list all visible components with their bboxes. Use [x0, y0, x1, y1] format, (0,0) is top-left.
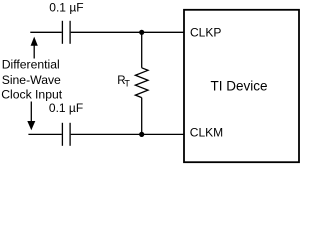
wire: resistor RT to bottom node	[141, 98, 143, 135]
svg-text:0.1 µF: 0.1 µF	[49, 1, 83, 15]
value label: 0.1 µF (C1)	[49, 1, 83, 15]
resistor RT (termination)	[135, 68, 148, 98]
svg-text:T: T	[124, 79, 130, 89]
TI Device box U1	[184, 10, 299, 162]
value label: 0.1 µF (C2)	[49, 101, 83, 115]
wire: input stub to C1 (top)	[30, 31, 62, 33]
junction dot: bottom node	[139, 132, 144, 137]
annotation arrow down (to bottom rail)	[27, 102, 35, 131]
junction dot: top node	[139, 30, 144, 35]
svg-text:0.1 µF: 0.1 µF	[49, 101, 83, 115]
wire: top node to resistor RT	[141, 32, 143, 68]
svg-text:CLKM: CLKM	[190, 126, 223, 140]
wire: C1 to CLKP pin (top net)	[71, 31, 184, 33]
pin label CLKP	[190, 26, 221, 40]
label RT	[117, 75, 130, 89]
wire: input stub to C2 (bottom)	[28, 133, 61, 135]
svg-text:CLKP: CLKP	[190, 26, 221, 40]
label: TI Device	[211, 79, 268, 94]
pin label CLKM	[190, 126, 223, 140]
svg-text:Clock Input: Clock Input	[1, 87, 63, 101]
svg-text:Sine-Wave: Sine-Wave	[2, 73, 61, 87]
annotation arrow up (to top rail)	[31, 37, 38, 59]
annotation text: Differential Sine-Wave Clock Input	[1, 58, 63, 102]
wire: C2 to CLKM pin (bottom net)	[71, 133, 184, 135]
capacitor C2 0.1 uF (bottom)	[62, 123, 70, 146]
svg-text:TI Device: TI Device	[211, 79, 268, 94]
capacitor C1 0.1 uF (top)	[62, 21, 70, 44]
svg-text:Differential: Differential	[2, 58, 60, 72]
